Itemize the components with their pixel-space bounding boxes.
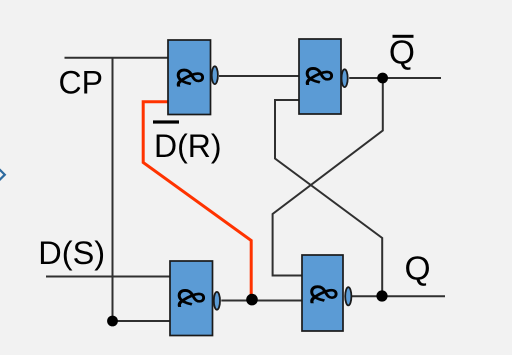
- svg-text:&: &: [302, 284, 344, 303]
- wire feedback Qbar to U4 upper input: [273, 78, 383, 276]
- nand gate U3 body: [169, 261, 212, 336]
- wire junction to G3 lower input: [113, 320, 171, 322]
- wire CP horizontal: [65, 57, 169, 59]
- connector diamond at left edge: [0, 168, 5, 181]
- nand gate U2 inversion bubble: [342, 69, 348, 87]
- nand gate U4 inversion bubble: [345, 287, 351, 305]
- wire U1 output to U2 input: [219, 75, 299, 77]
- svg-text:Q: Q: [405, 251, 431, 288]
- wire Q output: [352, 295, 445, 297]
- wire U3 output to U4 lower input: [221, 300, 302, 302]
- nand gate U3 inversion bubble: [214, 292, 220, 310]
- svg-text:D(R): D(R): [154, 128, 222, 164]
- svg-text:&: &: [297, 66, 339, 85]
- wire CP vertical branch: [112, 58, 114, 321]
- svg-text:CP: CP: [59, 64, 103, 100]
- junction dot Dbar(R) node: [246, 294, 258, 306]
- overline of Qbar: [393, 35, 414, 38]
- wire D(S) input: [46, 276, 170, 278]
- nand gate U2 body: [297, 39, 341, 114]
- red wire Dbar(R) net: [143, 102, 251, 298]
- junction dot Q node: [376, 290, 387, 301]
- svg-text:&: &: [168, 68, 210, 87]
- wire Qbar output: [349, 77, 441, 79]
- junction dot Qbar node: [377, 73, 388, 84]
- svg-text:Q: Q: [389, 35, 415, 72]
- svg-text:&: &: [169, 288, 211, 307]
- junction dot on CP line: [107, 316, 118, 327]
- wire feedback Q to U2 lower input: [275, 100, 382, 296]
- nand gate U1 inversion bubble: [212, 66, 218, 84]
- svg-text:D(S): D(S): [38, 235, 105, 271]
- nand gate U4 body: [302, 255, 344, 331]
- nand gate U1 body: [168, 40, 211, 115]
- overline of D in D(R): [153, 120, 179, 123]
